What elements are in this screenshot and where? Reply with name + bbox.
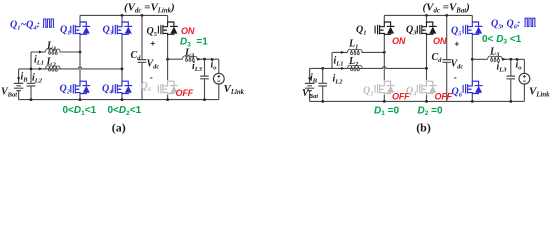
svg-text:Q6: Q6 [141, 81, 152, 93]
svg-text:Q6: Q6 [452, 87, 463, 99]
wire output cap riser [204, 59, 206, 99]
transistor Q5 b [463, 21, 482, 36]
transistor Q3 b (on) [417, 21, 436, 36]
svg-text:+: + [151, 39, 156, 48]
wire top rail b [384, 14, 472, 16]
wire output wire3 b [472, 58, 524, 60]
arrow iL3 b [502, 58, 506, 61]
svg-text:D1 =0: D1 =0 [374, 105, 399, 117]
inductor L3 [183, 56, 198, 62]
svg-text:Q3: Q3 [103, 25, 114, 37]
wire input wire2 with hop [19, 67, 122, 69]
svg-text:VLink: VLink [529, 86, 550, 99]
svg-text:0<D2<1: 0<D2<1 [108, 105, 142, 117]
arrow io b [516, 58, 520, 61]
inductor L2 [46, 66, 61, 72]
svg-text:(Vdc =VLink): (Vdc =VLink) [124, 2, 175, 15]
svg-text:Q4: Q4 [406, 86, 417, 98]
wire VLink corner b [523, 59, 525, 101]
node rail-incap [30, 98, 33, 101]
svg-text:+: + [455, 40, 460, 49]
capacitor input b [318, 83, 327, 86]
wire phase B vertical b [426, 36, 428, 80]
transistor Q1 [71, 21, 90, 36]
transistor Q6 (off) [158, 80, 177, 95]
battery VBat [14, 83, 23, 90]
wire input wire2 b with hop [310, 66, 427, 68]
svg-text:OFF: OFF [435, 92, 453, 102]
svg-text:VBat: VBat [302, 88, 318, 100]
svg-text:iL1: iL1 [334, 56, 344, 68]
inductor L3 b [488, 56, 503, 62]
transistor Q2 [71, 80, 90, 95]
node wire3-outcap [203, 58, 206, 61]
svg-text:Q5, Q6:: Q5, Q6: [491, 19, 520, 31]
svg-text:Cd: Cd [131, 50, 142, 62]
node switch leg / L3 [166, 58, 169, 61]
transistor Q6 b [463, 80, 482, 95]
node rail-Cd [141, 14, 144, 17]
wire output cap riser b [510, 59, 512, 101]
transistor Q2 b (off) [375, 80, 394, 95]
node switch leg / L3 b [471, 58, 474, 61]
capacitor output [200, 76, 209, 79]
capacitor Cd riser b [446, 15, 448, 101]
svg-text:Q5: Q5 [451, 26, 462, 38]
wire Q4 source drop [121, 95, 123, 100]
node rail-Q6 b [471, 100, 474, 103]
pulse glyph b [524, 18, 535, 26]
node rail-Cd b [445, 14, 448, 17]
arrow iL3 [197, 58, 201, 61]
svg-text:(a): (a) [112, 120, 126, 134]
wire Q3b drain drop [426, 15, 428, 20]
svg-text:Cd: Cd [432, 52, 443, 64]
svg-text:Q2: Q2 [60, 84, 71, 96]
node riser-wire2 [30, 68, 33, 71]
svg-text:L1: L1 [46, 41, 56, 53]
wire Q5b source leg [471, 36, 473, 80]
wire Q2b source drop [383, 95, 385, 102]
node wire1-phaseA [79, 51, 82, 54]
node rail-Q6 [166, 98, 169, 101]
svg-text:L2: L2 [46, 57, 57, 69]
wire phase A lower [79, 52, 81, 80]
arrow iL1 b [341, 51, 345, 54]
svg-text:L1: L1 [348, 39, 358, 51]
node rail-Q2 [79, 98, 82, 101]
svg-text:-: - [150, 73, 153, 82]
node rail-Q3 [121, 14, 124, 17]
svg-text:D2 =0: D2 =0 [418, 105, 443, 117]
wire output wire3 [168, 58, 219, 60]
svg-text:(Vdc =VBat): (Vdc =VBat) [423, 2, 470, 15]
wire phase A upper b [383, 36, 385, 53]
wire riser wire1-wire2 b [331, 52, 333, 68]
transistor Q3 [113, 21, 132, 36]
transistor Q4 b (off) [417, 80, 436, 95]
arrow iB [17, 77, 20, 81]
svg-text:L3: L3 [184, 48, 195, 60]
wire Q2 source drop [79, 95, 81, 100]
transistor Q4 [113, 80, 132, 95]
transistor Q5 [158, 21, 177, 36]
svg-text:Vdc: Vdc [451, 59, 464, 71]
arrow iL2 b [341, 67, 345, 70]
svg-text:L3: L3 [489, 47, 500, 59]
svg-text:io: io [211, 60, 218, 72]
svg-text:L2: L2 [348, 56, 359, 68]
svg-text:iL3: iL3 [192, 61, 203, 73]
svg-text:Q5: Q5 [147, 26, 158, 38]
svg-text:io: io [516, 60, 523, 72]
svg-text:ON: ON [433, 36, 447, 46]
svg-text:Q1: Q1 [60, 25, 70, 37]
wire Q5 drain drop [167, 15, 169, 20]
wire phase A upper [79, 36, 81, 52]
wire battery lead [18, 69, 20, 100]
wire top rail [80, 14, 168, 16]
node wire2-phaseB [121, 68, 124, 71]
arrow io [211, 58, 215, 61]
inductor L2 b [348, 65, 363, 71]
inductor L1 b [348, 49, 363, 55]
svg-text:ON: ON [392, 36, 406, 46]
wire Q6b source drop [471, 95, 473, 102]
wire Q5b drain drop [471, 15, 473, 20]
node rail-incap b [321, 100, 324, 103]
node rail-Q3 b [425, 14, 428, 17]
svg-text:Q2: Q2 [363, 86, 374, 98]
wire VLink corner [218, 59, 220, 99]
wire bottom rail [19, 99, 219, 101]
svg-text:ON: ON [181, 26, 195, 36]
transistor Q1 b (on) [375, 21, 394, 36]
wire input cap riser b [322, 68, 324, 101]
pulse glyph [43, 19, 54, 27]
node wire2-incap b [321, 67, 324, 70]
wire Q1b drain drop [383, 15, 385, 20]
node rail-Q4 [121, 98, 124, 101]
capacitor Cd b [442, 60, 451, 63]
capacitor input [27, 83, 36, 86]
node rail-outcap b [509, 100, 512, 103]
svg-text:(b): (b) [416, 120, 431, 134]
capacitor Cd riser [141, 15, 143, 99]
wire Q1 drain drop [79, 15, 81, 20]
wire riser wire1-wire2-cap [30, 52, 32, 100]
svg-text:Q1~Q4:: Q1~Q4: [10, 20, 40, 32]
svg-text:Q1: Q1 [356, 25, 366, 37]
wire input wire1 [31, 51, 80, 53]
svg-text:Q4: Q4 [102, 84, 113, 96]
wire battery lead b [309, 68, 311, 101]
wire input wire1 b [332, 51, 384, 53]
node wire2-phaseB b [425, 67, 428, 70]
node wire1-phaseA b [383, 51, 386, 54]
arrow iB b [308, 77, 311, 81]
svg-text:0< D3 <1: 0< D3 <1 [482, 34, 522, 46]
svg-text:iL3: iL3 [497, 62, 508, 74]
node rail-Q4 b [425, 100, 428, 103]
svg-text:Vdc: Vdc [147, 59, 160, 71]
wire phase A lower b [383, 52, 385, 80]
node rail-outcap [203, 98, 206, 101]
arrow iL2 [39, 67, 43, 70]
svg-text:iL1: iL1 [34, 55, 44, 67]
wire Q5 source leg [167, 36, 169, 80]
wire Q4b source drop [426, 95, 428, 102]
battery VBat b [305, 83, 314, 90]
svg-text:-: - [454, 73, 457, 82]
wire Q6 source drop [167, 95, 169, 100]
svg-text:0<D1<1: 0<D1<1 [63, 105, 97, 117]
node rail-Q2 b [383, 100, 386, 103]
capacitor output b [507, 76, 516, 79]
node wire3-outcap b [509, 58, 512, 61]
wire Q3 drain drop [121, 15, 123, 20]
svg-text:iB: iB [21, 72, 29, 84]
source VLink b [519, 73, 530, 84]
wire bottom rail b [310, 100, 525, 102]
inductor L1 [46, 49, 61, 55]
svg-text:iL2: iL2 [333, 74, 344, 86]
svg-text:OFF: OFF [176, 88, 194, 98]
svg-text:iL2: iL2 [32, 73, 43, 85]
svg-text:Q3: Q3 [406, 25, 417, 37]
arrow iL1 [39, 51, 43, 54]
capacitor Cd [138, 60, 147, 63]
source VLink [213, 73, 224, 84]
svg-text:iB: iB [310, 73, 318, 85]
svg-text:VLink: VLink [224, 83, 245, 96]
wire phase B vertical [121, 36, 123, 80]
